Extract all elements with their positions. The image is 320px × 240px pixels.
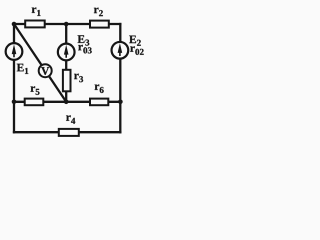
label r1: [32, 7, 41, 15]
resistor r1: [25, 21, 45, 28]
label r02: [130, 46, 143, 55]
EMF source E3 circle: [58, 44, 75, 61]
E2 arrow: [118, 43, 123, 56]
label r6: [95, 84, 104, 93]
resistor r3 vertical: [63, 70, 71, 92]
node left-mid dot: [12, 100, 17, 105]
resistor r2: [90, 21, 109, 28]
wire middle vertical: [65, 24, 67, 102]
wire diagonal A to C: [14, 24, 66, 102]
resistor r5: [25, 99, 44, 106]
label r4: [66, 115, 75, 123]
label r5: [31, 86, 40, 95]
voltmeter V circle: [39, 64, 52, 77]
resistor r6: [90, 99, 108, 106]
E3 arrow: [64, 45, 69, 58]
node D dot: [118, 100, 123, 105]
wire middle horizontal: [14, 101, 120, 103]
label E2: [129, 36, 141, 46]
EMF source E2 circle: [112, 42, 129, 59]
resistor r4: [59, 129, 79, 136]
label r2: [94, 8, 103, 16]
wire right vertical: [119, 24, 121, 132]
label r03: [78, 45, 91, 54]
node A dot: [12, 22, 17, 27]
wire bottom horizontal: [14, 131, 120, 133]
node C dot: [64, 100, 69, 105]
label E1: [17, 64, 29, 74]
EMF source E1 circle: [6, 43, 23, 60]
label E3: [78, 35, 90, 45]
wire top horizontal: [14, 23, 120, 25]
label r3: [74, 74, 83, 83]
wire left vertical: [13, 24, 15, 132]
E1 arrow: [12, 44, 17, 57]
voltmeter V letter: [41, 67, 49, 75]
node B dot: [64, 22, 69, 27]
